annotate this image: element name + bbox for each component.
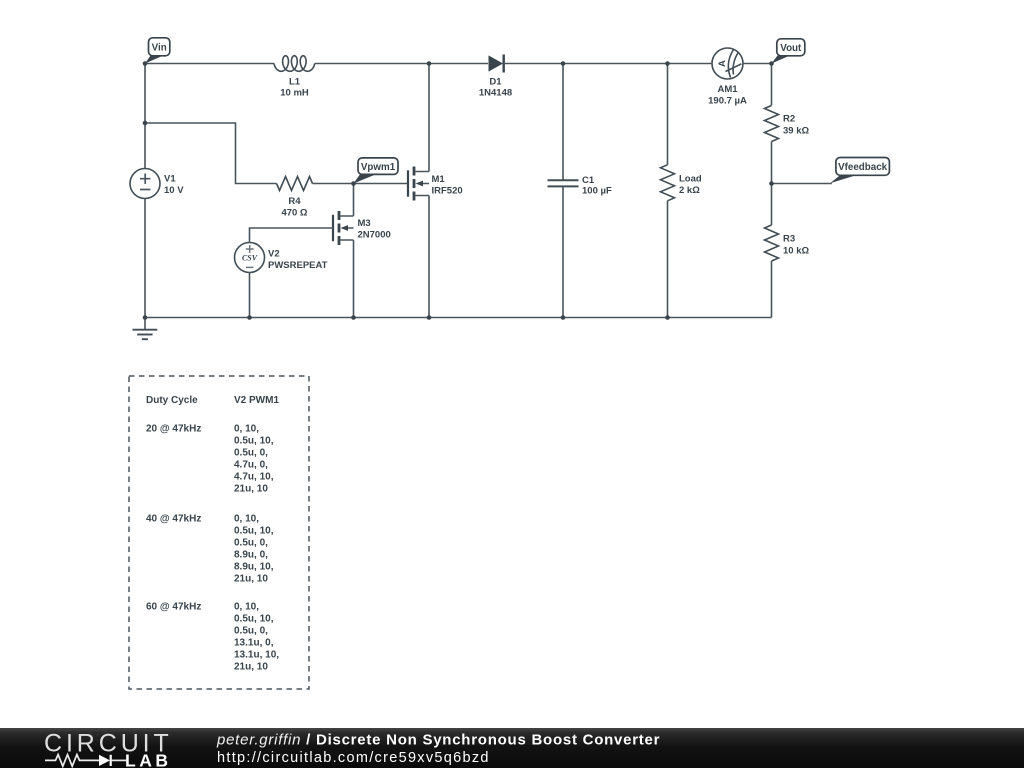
wire: R4 to Vpwm1 node and M1 gate — [313, 183, 409, 185]
svg-text:Vfeedback: Vfeedback — [838, 162, 888, 173]
wire left rail: Vin node down to V1 — [144, 64, 146, 169]
svg-text:IRF520: IRF520 — [432, 186, 463, 197]
voltage source V2 — [235, 243, 328, 273]
wire: C1 bottom to ground rail — [562, 187, 564, 318]
svg-text:peter.griffin / Discrete Non S: peter.griffin / Discrete Non Synchronous… — [216, 732, 660, 749]
wire: M1 source down to ground rail — [428, 196, 430, 318]
svg-text:L1: L1 — [289, 77, 301, 88]
svg-text:10 mH: 10 mH — [280, 88, 309, 99]
svg-text:0, 10,: 0, 10, — [234, 514, 259, 525]
wire: M1 drain up to top rail — [428, 64, 430, 172]
junction ground rail / C1 bottom — [561, 315, 566, 320]
svg-text:470 Ω: 470 Ω — [281, 208, 307, 219]
MOSFET M1 — [408, 167, 463, 201]
svg-text:0.5u, 0,: 0.5u, 0, — [234, 538, 268, 549]
svg-text:0, 10,: 0, 10, — [234, 602, 259, 613]
wire: R3 bottom to ground rail corner — [771, 261, 773, 318]
wire top rail: ammeter to Vout node — [743, 63, 772, 65]
svg-text:Vin: Vin — [152, 43, 167, 54]
junction C1 top / top rail — [561, 61, 566, 66]
svg-text:4.7u, 10,: 4.7u, 10, — [234, 472, 274, 483]
svg-text:2N7000: 2N7000 — [358, 230, 391, 241]
ground — [133, 318, 158, 340]
svg-text:0.5u, 10,: 0.5u, 10, — [234, 614, 274, 625]
junction Load top / top rail — [665, 61, 670, 66]
svg-text:M1: M1 — [432, 174, 446, 185]
junction ground rail / M3 source — [351, 315, 356, 320]
junction ground rail / V2 — [247, 315, 252, 320]
svg-text:V2: V2 — [268, 249, 280, 260]
resistor R3 — [765, 225, 810, 261]
svg-text:R3: R3 — [783, 234, 795, 245]
wire top rail left: Vin node to inductor — [145, 63, 274, 65]
junction M1 drain / top rail — [427, 61, 432, 66]
voltage source V1 — [130, 169, 184, 199]
svg-text:39 kΩ: 39 kΩ — [783, 126, 809, 137]
svg-text:CSV: CSV — [242, 254, 258, 263]
node Vfeedback flag — [830, 158, 889, 184]
svg-text:100 µF: 100 µF — [582, 186, 612, 197]
svg-text:Vpwm1: Vpwm1 — [361, 162, 396, 173]
svg-text:0, 10,: 0, 10, — [234, 424, 259, 435]
wire branch: left rail to R4 — [145, 123, 277, 184]
svg-text:10 kΩ: 10 kΩ — [783, 246, 809, 257]
capacitor C1 — [548, 175, 612, 197]
wire: V2 bottom to ground rail — [249, 273, 251, 318]
svg-text:4.7u, 0,: 4.7u, 0, — [234, 460, 268, 471]
junction ground rail / M1 source — [427, 315, 432, 320]
wire: V2 to M3 gate — [250, 228, 334, 243]
diode D1 — [479, 55, 512, 99]
svg-text:8.9u, 0,: 8.9u, 0, — [234, 550, 268, 561]
svg-text:V2 PWM1: V2 PWM1 — [234, 395, 279, 406]
svg-text:13.1u, 0,: 13.1u, 0, — [234, 638, 274, 649]
svg-text:http://circuitlab.com/cre59xv5: http://circuitlab.com/cre59xv5q6bzd — [217, 750, 490, 766]
junction ground rail / Load bottom — [665, 315, 670, 320]
wire ground rail — [145, 317, 772, 319]
svg-text:21u, 10: 21u, 10 — [234, 574, 268, 585]
svg-text:0.5u, 0,: 0.5u, 0, — [234, 448, 268, 459]
svg-text:10 V: 10 V — [164, 185, 184, 196]
wire top rail: inductor to diode — [315, 63, 488, 65]
svg-text:2 kΩ: 2 kΩ — [679, 185, 700, 196]
wire: Vout node down to R2 — [771, 64, 773, 106]
junction ground rail / V1 — [143, 315, 148, 320]
wire top rail: diode to ammeter — [505, 63, 712, 65]
simulation notes table box — [129, 376, 309, 689]
wire: R2 bottom to Vfeedback node — [771, 142, 773, 226]
svg-text:M3: M3 — [358, 218, 371, 229]
svg-text:190.7 µA: 190.7 µA — [708, 96, 747, 107]
svg-text:0.5u, 10,: 0.5u, 10, — [234, 526, 274, 537]
svg-text:13.1u, 10,: 13.1u, 10, — [234, 650, 279, 661]
wire: M3 source down to ground rail — [353, 240, 355, 318]
resistor Load — [661, 165, 702, 201]
svg-text:21u, 10: 21u, 10 — [234, 484, 268, 495]
svg-text:Vout: Vout — [780, 43, 802, 54]
wire: Vpwm1 node down to M3 drain — [353, 184, 355, 217]
junction at node Vfeedback — [769, 181, 774, 186]
svg-text:0.5u, 0,: 0.5u, 0, — [234, 626, 268, 637]
node Vout flag — [772, 39, 805, 64]
svg-text:D1: D1 — [489, 77, 502, 88]
inductor L1 — [274, 56, 315, 72]
svg-text:PWSREPEAT: PWSREPEAT — [268, 260, 328, 271]
svg-text:LAB: LAB — [125, 751, 171, 769]
junction left rail / R4 branch — [143, 121, 148, 126]
footer bar — [0, 728, 1024, 768]
wire: Load top — [667, 64, 669, 165]
node Vpwm1 flag — [354, 158, 399, 184]
svg-text:Duty Cycle: Duty Cycle — [146, 395, 198, 406]
svg-text:1N4148: 1N4148 — [479, 88, 512, 99]
junction at node Vpwm1 — [351, 181, 356, 186]
MOSFET M3 — [333, 211, 391, 245]
svg-text:C1: C1 — [582, 175, 595, 186]
svg-text:0.5u, 10,: 0.5u, 10, — [234, 436, 274, 447]
table text — [146, 395, 279, 673]
svg-text:A: A — [717, 60, 728, 67]
svg-text:60 @ 47kHz: 60 @ 47kHz — [146, 602, 201, 613]
wire: Vfeedback stub — [772, 183, 832, 185]
svg-text:8.9u, 10,: 8.9u, 10, — [234, 562, 274, 573]
resistor R4 — [277, 177, 313, 219]
svg-text:20 @ 47kHz: 20 @ 47kHz — [146, 424, 201, 435]
wire: Load bottom to ground rail — [667, 201, 669, 318]
svg-text:Load: Load — [679, 174, 702, 185]
svg-text:R4: R4 — [288, 196, 301, 207]
junction at node Vout — [769, 61, 774, 66]
wire: C1 top — [562, 64, 564, 181]
svg-text:R2: R2 — [783, 114, 795, 125]
wire left rail: V1 to ground rail — [144, 199, 146, 318]
CircuitLab logo wordmark — [44, 730, 173, 771]
svg-text:AM1: AM1 — [717, 84, 738, 95]
svg-text:40 @ 47kHz: 40 @ 47kHz — [146, 514, 201, 525]
ammeter AM1 — [708, 48, 747, 107]
resistor R2 — [765, 106, 810, 142]
junction at node Vin — [143, 61, 148, 66]
node Vin flag — [145, 38, 170, 64]
svg-text:21u, 10: 21u, 10 — [234, 662, 268, 673]
svg-text:V1: V1 — [164, 174, 176, 185]
